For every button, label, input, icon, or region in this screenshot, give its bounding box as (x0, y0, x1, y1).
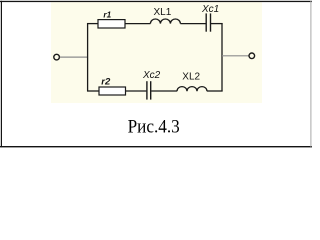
svg-text:Xc2: Xc2 (142, 70, 161, 81)
svg-text:Рис.4.3: Рис.4.3 (128, 116, 180, 137)
inductor XL2 (177, 87, 207, 92)
wire: left terminal to left node (60, 56, 88, 58)
wire: left vertical bus (87, 23, 89, 91)
wire: Xc2 to XL2 (151, 90, 177, 92)
border frame top (0, 1, 312, 2)
resistor r2 (99, 87, 126, 95)
border frame bottom (0, 146, 312, 147)
wire: right node to right terminal (222, 55, 249, 57)
svg-text:XL2: XL2 (182, 72, 200, 83)
left terminal (54, 54, 60, 60)
right terminal (249, 53, 255, 59)
capacitor Xc2 (147, 81, 151, 99)
resistor r1 (98, 20, 125, 28)
inductor XL1 (150, 19, 180, 24)
wire: r2 to Xc2 (126, 90, 147, 92)
capacitor Xc1 (206, 13, 210, 31)
page background (0, 0, 312, 156)
svg-text:XL1: XL1 (154, 7, 172, 18)
wire: XL1 to Xc1 (180, 23, 205, 25)
wire: Xc1 to right node (211, 23, 223, 25)
svg-text:r1: r1 (103, 11, 111, 20)
wire: top branch left segment (87, 23, 98, 25)
border frame left (1, 1, 2, 147)
schematic background panel (51, 2, 262, 103)
svg-text:Xc1: Xc1 (201, 4, 219, 15)
border frame right (310, 1, 311, 147)
svg-text:r2: r2 (101, 77, 111, 88)
wire: bottom branch left segment (87, 90, 99, 92)
wire: right vertical bus (221, 23, 223, 91)
wire: r1 to XL1 (125, 23, 150, 25)
wire: XL2 to right node (207, 90, 223, 92)
